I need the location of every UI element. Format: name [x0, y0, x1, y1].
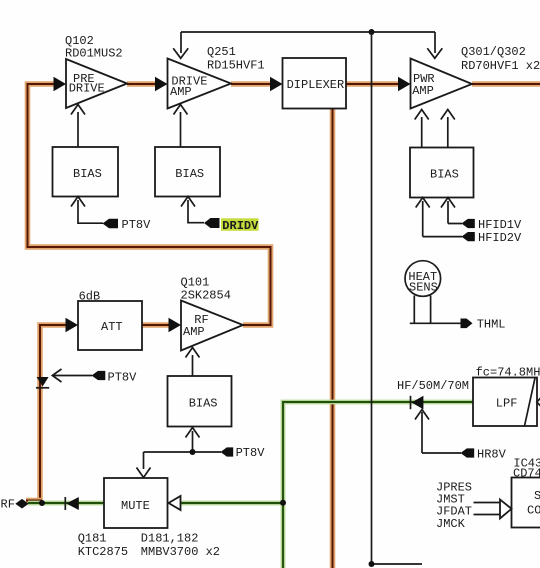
- svg-text:CO: CO: [527, 504, 540, 518]
- wire orange RF-in riser to ATT: [26, 325, 68, 501]
- label JPRES JMST JFDAT JMCK: [436, 481, 472, 532]
- wire orange DRIVE AMP to DIPLEXER: [231, 81, 273, 87]
- wire BIAS1 to PRE DRIVE: [71, 105, 85, 148]
- svg-text:RF: RF: [1, 498, 15, 512]
- svg-text:MUTE: MUTE: [121, 499, 150, 513]
- terminal RF jack diamond: [1, 498, 29, 512]
- svg-text:DRIVE: DRIVE: [69, 81, 105, 95]
- wire green RF line from RF jack to MUTE: [28, 501, 104, 506]
- arrowhead into DRIVE AMP input: [155, 77, 168, 92]
- node junction at bottom control corner: [369, 561, 375, 567]
- arrowhead into PWR AMP top: [427, 48, 442, 58]
- wire serial bus into IC: [474, 503, 501, 515]
- op-amp Q251 DRIVE AMP: [168, 59, 232, 109]
- op-amp Q101 RF AMP: [181, 301, 243, 351]
- terminal DRIDV tag highlighted: [204, 218, 259, 233]
- wire orange DIPLEXER RX drop: [330, 109, 336, 568]
- node junction green RX: [280, 500, 286, 506]
- svg-text:RD01MUS2: RD01MUS2: [65, 46, 123, 60]
- terminal PT8V tag (BIAS1): [103, 218, 152, 232]
- terminal PT8V tag (BIAS4): [221, 446, 266, 460]
- arrowhead into LPF from right: [537, 396, 540, 408]
- arrowhead open bus into IC: [500, 500, 512, 519]
- diode D181 on RF line: [65, 497, 79, 510]
- label Q301/Q302: [461, 45, 540, 73]
- op-amp Q301/Q302 PWR AMP: [411, 59, 473, 109]
- svg-text:BIAS: BIAS: [189, 397, 218, 411]
- label Q101: [181, 276, 231, 303]
- wire control line down right side: [372, 32, 423, 564]
- terminal HFID1V tag: [462, 218, 523, 232]
- arrowhead into PRE DRIVE input: [54, 77, 67, 92]
- svg-text:ATT: ATT: [101, 320, 123, 334]
- wire PT8V arrow pointing at diode: [52, 369, 92, 382]
- svg-text:Q251: Q251: [207, 45, 236, 59]
- svg-text:AMP: AMP: [183, 325, 205, 339]
- wire orange DIPLEXER to PWR AMP: [346, 81, 401, 87]
- terminal HR8V tag: [461, 448, 507, 462]
- arrowhead into DRIVE AMP top: [173, 48, 188, 58]
- svg-text:DRIDV: DRIDV: [222, 219, 259, 233]
- svg-text:RD70HVF1 x2: RD70HVF1 x2: [461, 59, 540, 73]
- svg-text:HF/50M/70M: HF/50M/70M: [397, 379, 469, 393]
- svg-text:Q181: Q181: [78, 532, 107, 546]
- svg-text:HFID2V: HFID2V: [478, 231, 522, 245]
- wire green RX riser and LPF line: [283, 402, 473, 568]
- block DIPLEXER: [283, 58, 347, 109]
- svg-text:THML: THML: [477, 318, 506, 332]
- svg-text:AMP: AMP: [412, 84, 434, 98]
- sensor HEAT SENS: [405, 261, 441, 297]
- svg-text:RD15HVF1: RD15HVF1: [207, 59, 265, 73]
- op-amp Q102 PRE DRIVE: [66, 59, 127, 108]
- diode on TX riser: [36, 377, 49, 388]
- wire BIAS3 to PWR AMP (two lines): [415, 110, 455, 148]
- label Q181 KTC2875: [78, 532, 128, 560]
- svg-text:SENS: SENS: [409, 280, 438, 294]
- wire PT8V feed to BIAS4 and MUTE control: [137, 428, 222, 478]
- svg-text:PT8V: PT8V: [122, 218, 152, 232]
- node junction orange riser on RF line: [39, 500, 45, 506]
- svg-text:S: S: [534, 489, 540, 503]
- wire top feed line to DRIVE AMP and PWR AMP: [181, 32, 435, 53]
- wire orange PWR AMP output to right edge: [472, 81, 540, 87]
- arrowhead into PWR AMP input: [398, 77, 411, 92]
- wire PT8V feed to BIAS1: [71, 197, 103, 225]
- wire HFID1V feed to BIAS3: [441, 198, 462, 224]
- block LPF: [473, 378, 537, 427]
- svg-text:AMP: AMP: [170, 85, 192, 99]
- block BIAS for Q102: [53, 147, 119, 197]
- block BIAS for PWR AMP: [410, 148, 474, 198]
- diode on LPF line: [411, 396, 424, 409]
- block BIAS for Q251: [155, 147, 220, 197]
- terminal HFID2V tag: [462, 231, 523, 245]
- svg-text:BIAS: BIAS: [430, 168, 459, 182]
- wire orange ATT to RF AMP: [142, 322, 172, 328]
- wire BIAS2 to DRIVE AMP: [174, 105, 188, 148]
- wire DRIDV feed to BIAS2: [181, 197, 204, 224]
- node junction at top feed: [369, 29, 375, 35]
- arrowhead into RF AMP input: [169, 318, 182, 333]
- label Q102: [65, 34, 123, 60]
- block shift control IC: [512, 478, 540, 528]
- arrowhead open into MUTE right side: [169, 496, 181, 510]
- svg-text:JMCK: JMCK: [436, 517, 466, 531]
- wire HEAT SENS legs to THML: [410, 296, 461, 324]
- node junction PT8V feed: [190, 449, 196, 455]
- label D181,182 MMBV3700 x2: [141, 532, 220, 560]
- terminal PT8V tag (diode): [92, 371, 138, 385]
- svg-text:LPF: LPF: [496, 397, 518, 411]
- svg-text:HR8V: HR8V: [477, 448, 507, 462]
- svg-text:MMBV3700 x2: MMBV3700 x2: [141, 545, 220, 559]
- terminal THML tag (output): [461, 318, 506, 332]
- arrowhead into ATT input: [66, 318, 79, 333]
- wire orange RF AMP output loop to PRE DRIVE input: [28, 84, 271, 325]
- svg-text:PT8V: PT8V: [236, 446, 266, 460]
- wire HR8V feed to diode: [415, 410, 461, 454]
- svg-text:Q301/Q302: Q301/Q302: [461, 45, 526, 59]
- label IC432 CD74: [513, 456, 540, 480]
- wire green MUTE to RX junction: [180, 501, 283, 506]
- label Q251: [207, 45, 265, 73]
- block ATT attenuator: [78, 301, 142, 350]
- wire orange PRE DRIVE to DRIVE AMP: [127, 81, 158, 87]
- svg-text:DIPLEXER: DIPLEXER: [287, 78, 345, 92]
- block MUTE: [104, 478, 168, 528]
- arrowhead into DIPLEXER input: [270, 77, 283, 92]
- svg-text:PT8V: PT8V: [108, 371, 138, 385]
- svg-text:BIAS: BIAS: [73, 167, 102, 181]
- wire HFID2V feed to BIAS3: [416, 198, 462, 237]
- svg-text:Q101: Q101: [181, 276, 210, 290]
- wire BIAS4 to RF AMP: [186, 348, 200, 377]
- svg-text:KTC2875: KTC2875: [78, 545, 128, 559]
- svg-text:BIAS: BIAS: [175, 167, 204, 181]
- svg-text:D181,182: D181,182: [141, 532, 199, 546]
- svg-text:2SK2854: 2SK2854: [181, 289, 231, 303]
- svg-text:HFID1V: HFID1V: [478, 218, 522, 232]
- block BIAS for Q101: [168, 376, 232, 427]
